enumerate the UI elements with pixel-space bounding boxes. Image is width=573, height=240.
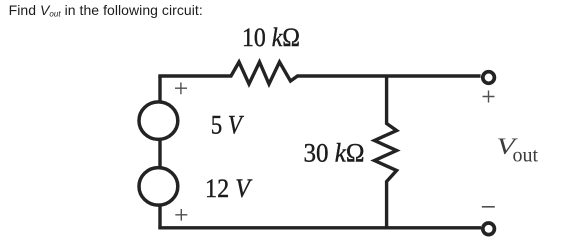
svg-text:10 kΩ: 10 kΩ <box>242 22 300 52</box>
svg-text:12 V: 12 V <box>205 173 253 203</box>
svg-text:out: out <box>513 145 539 167</box>
svg-text:30 kΩ: 30 kΩ <box>304 138 365 168</box>
svg-text:5 V: 5 V <box>211 109 244 139</box>
